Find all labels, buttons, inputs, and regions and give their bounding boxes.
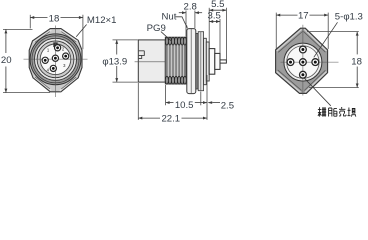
dim 17 xyxy=(276,11,328,49)
kanji 樹脂充填 hand strokes xyxy=(318,107,356,117)
center line vertical xyxy=(54,26,56,98)
shell inner circle xyxy=(37,41,74,78)
脂 xyxy=(329,108,337,117)
socket E xyxy=(63,53,69,59)
樹 xyxy=(318,107,326,116)
label resin fill (kanji) leader xyxy=(304,78,331,106)
dim 2.5 xyxy=(201,75,234,120)
svg-text:22.1: 22.1 xyxy=(161,113,180,123)
rear face circle xyxy=(287,46,319,78)
svg-text:M12×1: M12×1 xyxy=(87,15,117,26)
dim 10.5 xyxy=(166,85,207,111)
keyway notch xyxy=(53,42,57,47)
dim phi13.9 xyxy=(102,40,137,82)
hole E xyxy=(312,59,319,66)
svg-text:20: 20 xyxy=(1,55,12,66)
svg-text:5-φ1.3: 5-φ1.3 xyxy=(335,12,363,23)
填 xyxy=(348,108,356,117)
PG9 thread xyxy=(165,37,186,84)
rear outer circle xyxy=(284,43,322,81)
chamfer shading lines xyxy=(34,30,78,91)
svg-text:Nut: Nut xyxy=(162,12,177,23)
body cylinder xyxy=(138,40,165,82)
center line horizontal xyxy=(24,58,88,60)
mounting nut xyxy=(187,29,196,94)
dim 18 (front width) xyxy=(30,13,83,49)
label PG9 xyxy=(147,23,172,42)
spacer xyxy=(198,32,203,91)
svg-text:5.5: 5.5 xyxy=(211,0,224,10)
svg-text:φ13.9: φ13.9 xyxy=(102,56,127,67)
svg-text:18: 18 xyxy=(351,56,362,67)
hole W xyxy=(287,59,294,66)
rear center line horizontal xyxy=(281,61,339,63)
svg-text:2.5: 2.5 xyxy=(221,100,234,111)
keyway detail on body xyxy=(139,51,145,59)
hole S xyxy=(300,71,307,78)
svg-text:2.8: 2.8 xyxy=(184,2,197,13)
label M12x1 xyxy=(76,15,116,37)
shell outer circle xyxy=(35,38,77,80)
socket center xyxy=(52,55,58,61)
dim 18 (rear) xyxy=(307,32,362,88)
hole center xyxy=(300,59,307,66)
washer xyxy=(196,33,198,89)
socket S xyxy=(50,65,56,71)
solder pin xyxy=(220,60,226,63)
充 xyxy=(339,107,346,116)
dim 20 (front height) xyxy=(1,29,50,92)
contact housing step 1 xyxy=(209,49,215,75)
dim 5.5 xyxy=(209,0,226,63)
label 5-phi1.3 xyxy=(314,12,363,58)
rear plate xyxy=(206,42,209,81)
insert face circle xyxy=(40,44,71,75)
socket N xyxy=(55,45,61,51)
dim 3.5 xyxy=(208,8,221,53)
thread relief circle xyxy=(32,36,79,83)
socket W xyxy=(42,57,48,63)
rear flange octagon xyxy=(276,28,328,93)
contact housing step 2 xyxy=(215,53,220,69)
svg-text:18: 18 xyxy=(49,13,60,24)
svg-text:17: 17 xyxy=(298,11,309,22)
label Nut xyxy=(162,12,188,30)
svg-text:PG9: PG9 xyxy=(147,23,166,34)
coupling outer circle (M12 thread OD) xyxy=(30,34,81,85)
axis centerline xyxy=(135,61,166,63)
rear center line vertical xyxy=(302,25,304,96)
dim 2.8 xyxy=(179,2,202,37)
flange octagon xyxy=(29,29,82,92)
dim 22.1 xyxy=(138,83,207,124)
hole N xyxy=(300,46,307,53)
svg-text:10.5: 10.5 xyxy=(175,100,194,111)
rear body block xyxy=(204,38,207,84)
svg-text:3.5: 3.5 xyxy=(208,10,221,21)
